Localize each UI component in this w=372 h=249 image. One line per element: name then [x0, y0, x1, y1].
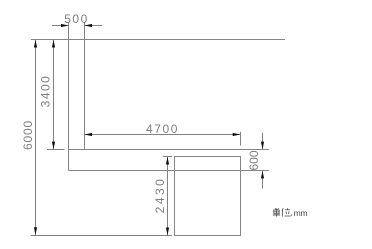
svg-text:2430: 2430	[153, 177, 167, 214]
svg-text:6000: 6000	[21, 120, 35, 150]
svg-text:4700: 4700	[146, 122, 179, 136]
svg-text:mm: mm	[294, 208, 308, 218]
svg-text:3400: 3400	[39, 75, 53, 108]
svg-text:500: 500	[64, 12, 89, 26]
svg-text:600: 600	[247, 150, 261, 170]
